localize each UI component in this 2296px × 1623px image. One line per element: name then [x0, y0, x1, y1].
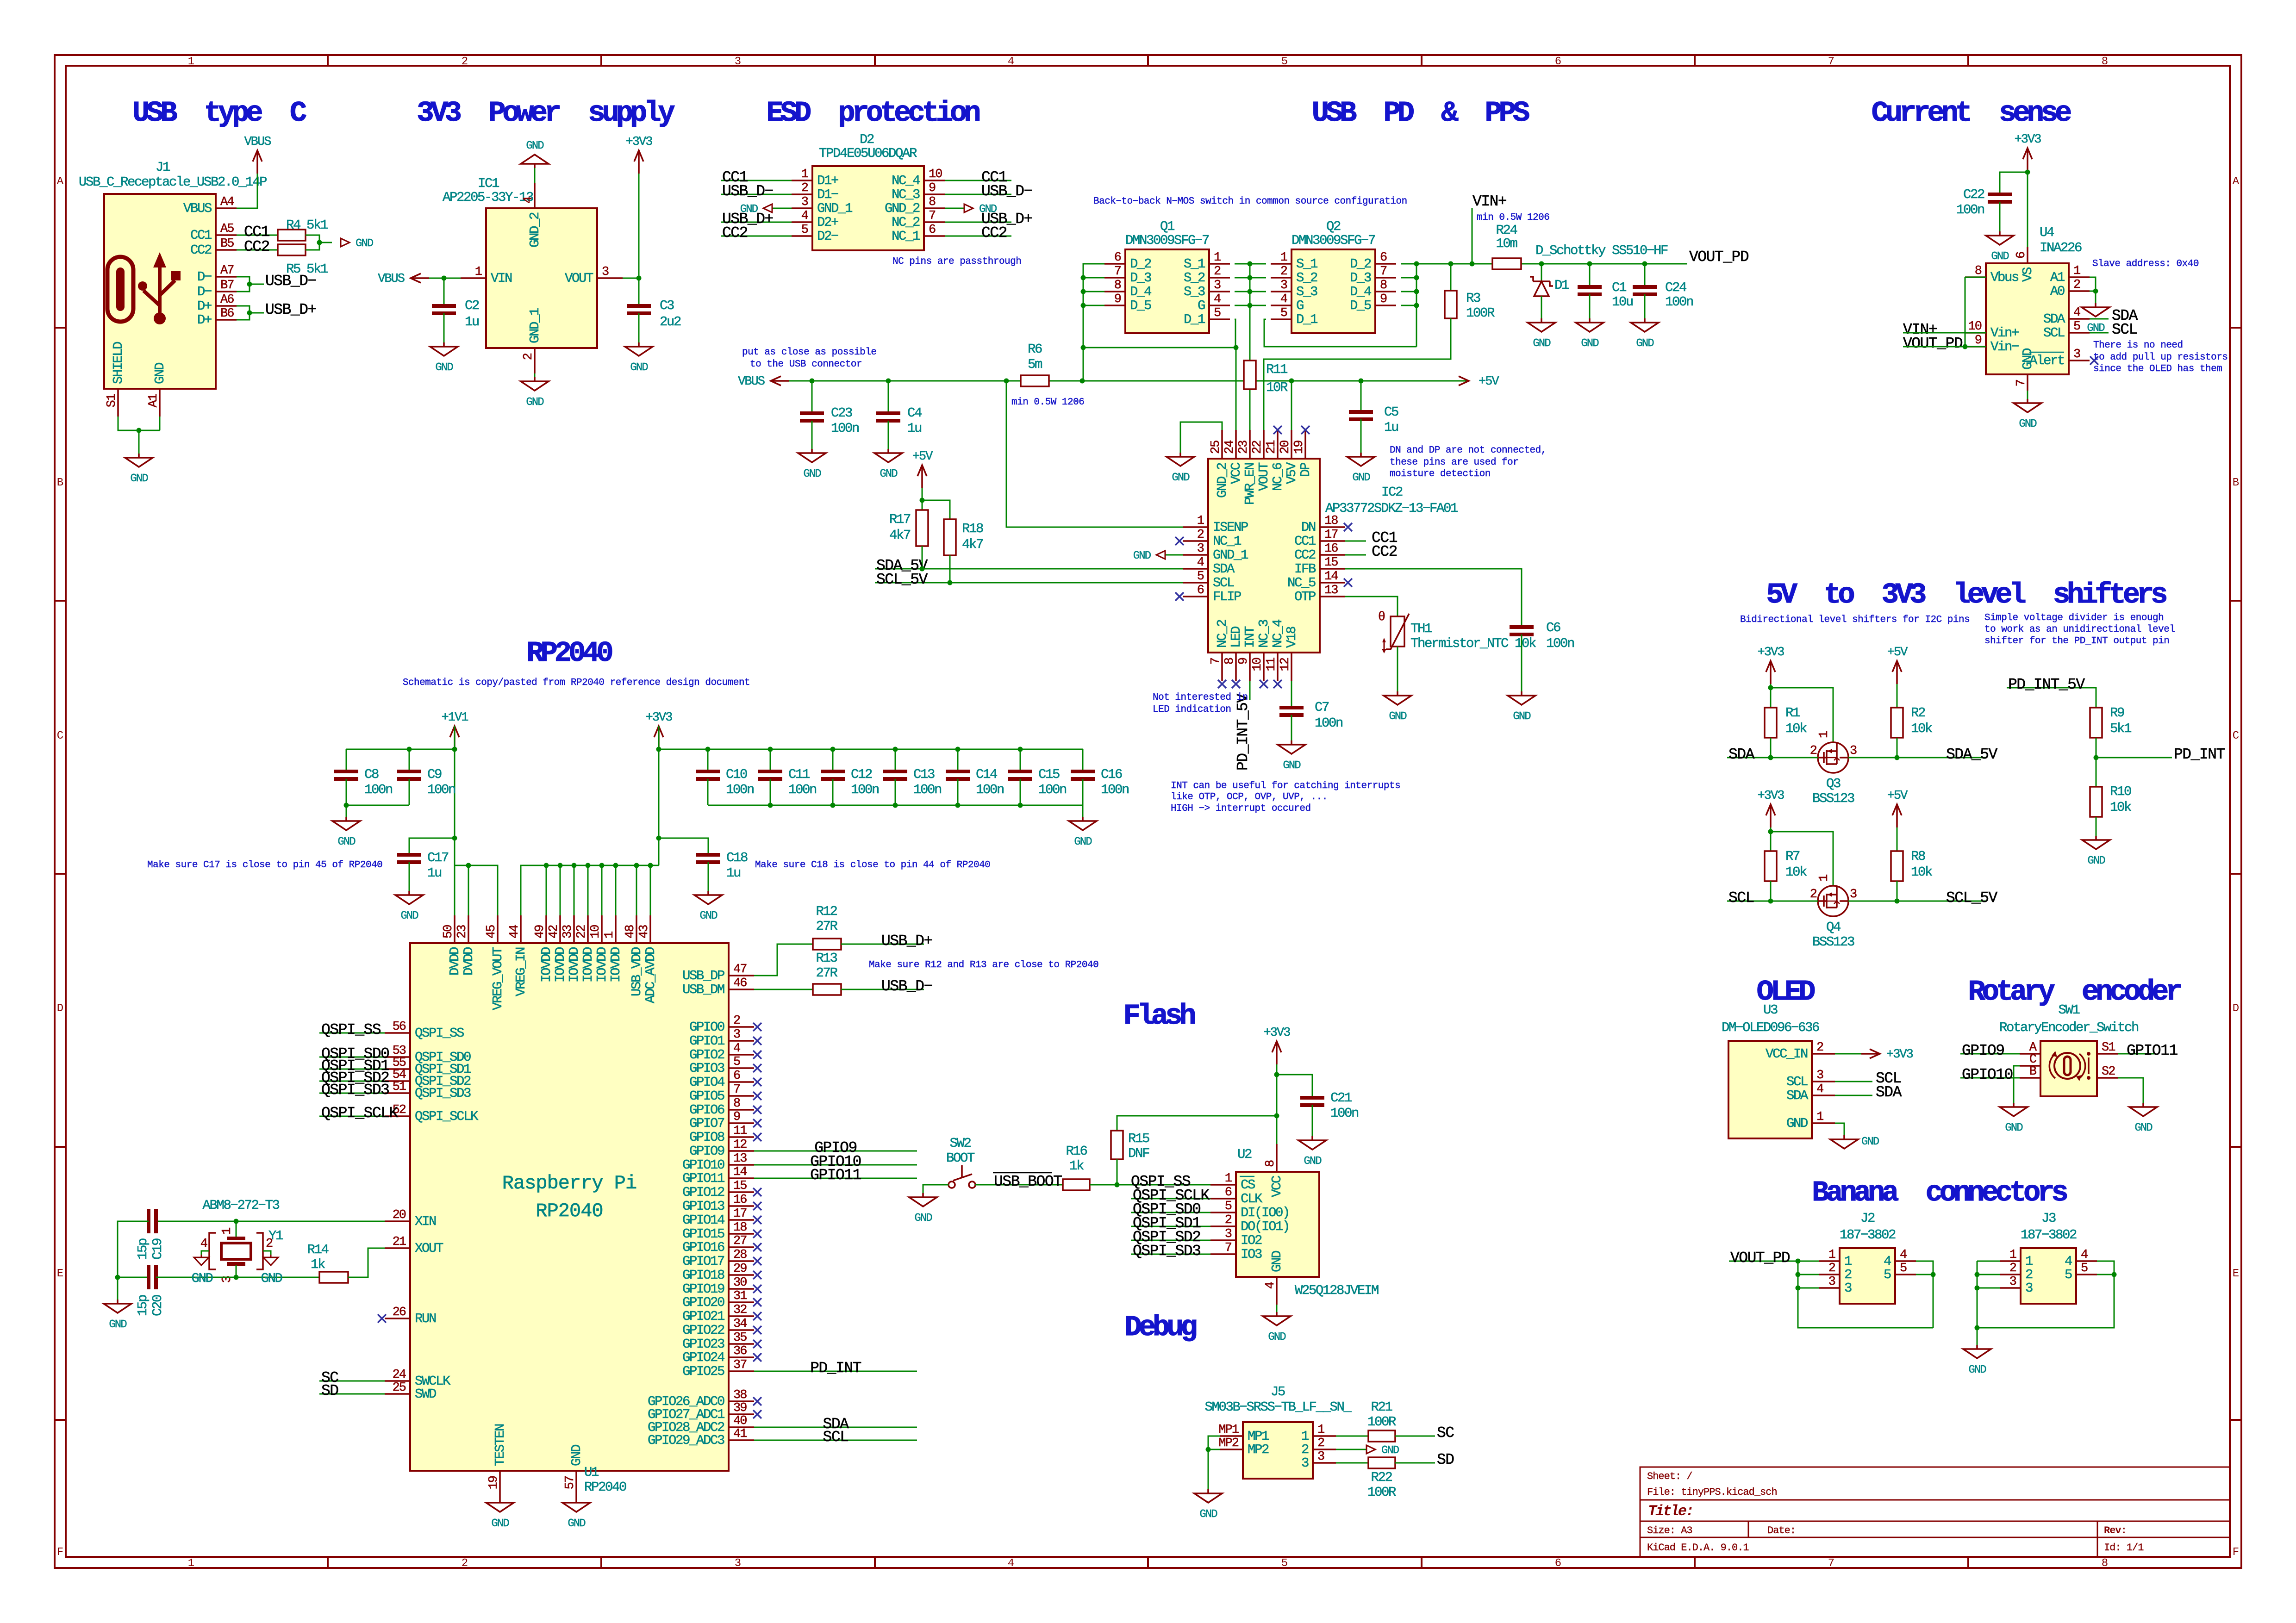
pin 6 NC_1: [892, 223, 945, 244]
svg-text:S1: S1: [2102, 1041, 2115, 1055]
resistor R7 10k: [1765, 851, 1777, 881]
svg-text:100n: 100n: [427, 782, 455, 797]
svg-text:C16: C16: [1101, 767, 1122, 782]
svg-text:GND: GND: [1861, 1136, 1879, 1148]
svg-text:GND: GND: [1533, 337, 1551, 350]
svg-text:6: 6: [1197, 584, 1204, 597]
svg-text:C17: C17: [427, 850, 449, 865]
wire GPIO11: [754, 1178, 917, 1179]
svg-text:CS: CS: [1241, 1177, 1255, 1193]
svg-text:GND: GND: [1199, 1508, 1217, 1521]
pin 19 TESTEN: [487, 1424, 508, 1499]
svg-text:R9: R9: [2110, 705, 2124, 721]
no-connect: [753, 1078, 761, 1086]
pin 6 D_2: [1350, 251, 1396, 272]
pin S1: [2097, 1041, 2118, 1055]
junction: [317, 240, 322, 245]
ground: [1194, 1489, 1222, 1521]
no-connect: [753, 1397, 761, 1405]
junction: [1081, 275, 1086, 280]
power flag +5V right: [1459, 375, 1499, 389]
pin 1 A1: [2050, 264, 2090, 285]
no-connect: [753, 1326, 761, 1334]
svg-text:2: 2: [2073, 278, 2080, 292]
wire SW2 to gnd: [923, 1185, 948, 1193]
svg-text:4: 4: [1264, 1282, 1278, 1289]
wire CC2 right: [945, 236, 1011, 237]
wire vdd drop: [636, 865, 637, 915]
svg-text:10k: 10k: [1911, 721, 1932, 736]
wire vdd drop: [601, 865, 603, 915]
svg-text:GND: GND: [569, 1445, 584, 1466]
wire USB_D- right: [945, 194, 1011, 195]
capacitor C18 1u: [659, 838, 708, 855]
svg-text:RUN: RUN: [415, 1311, 436, 1326]
svg-text:θ: θ: [1378, 610, 1385, 624]
svg-text:15p: 15p: [135, 1238, 150, 1260]
svg-text:GPIO9: GPIO9: [689, 1144, 724, 1159]
junction: [1539, 261, 1544, 267]
junction: [2112, 1272, 2117, 1277]
wire +5V to R17 R18: [922, 488, 923, 510]
svg-text:Title:: Title:: [1648, 1503, 1693, 1520]
wire +3V3 to R1 and gate: [1770, 684, 1772, 708]
svg-text:A1: A1: [2050, 270, 2065, 285]
wire J3 right bus: [1977, 1261, 2114, 1328]
pin A5 CC1: [190, 222, 237, 243]
svg-text:Y1: Y1: [268, 1228, 283, 1244]
pin 46 USB_DM: [682, 976, 754, 997]
ground: [1167, 453, 1194, 484]
svg-text:B: B: [2233, 477, 2239, 489]
wire VCC drop: [1276, 1116, 1278, 1144]
pin 43 ADC_AVDD: [637, 915, 658, 1003]
svg-text:38: 38: [733, 1388, 747, 1402]
svg-text:GND: GND: [400, 910, 418, 922]
no-connect: [753, 1133, 761, 1141]
svg-text:C13: C13: [913, 767, 935, 782]
pin 4 D2+: [792, 209, 838, 230]
pin 10 Vin+: [1965, 320, 2019, 341]
svg-text:D2−: D2−: [817, 229, 838, 244]
wire USB_D-: [841, 989, 924, 990]
svg-text:D_3: D_3: [1130, 270, 1151, 286]
svg-text:D_2: D_2: [1130, 256, 1151, 272]
svg-text:C14: C14: [976, 767, 997, 782]
current monitor U4 INA226: [1986, 263, 2069, 374]
svg-text:CC2: CC2: [722, 224, 748, 242]
svg-text:100n: 100n: [1330, 1106, 1358, 1121]
svg-text:3: 3: [1280, 279, 1287, 292]
power flag VBUS: [738, 375, 789, 389]
svg-text:to the USB connector: to the USB connector: [750, 359, 862, 370]
capacitor C23 100n: [811, 381, 813, 413]
svg-text:26: 26: [393, 1306, 406, 1319]
ground: [125, 454, 153, 485]
svg-text:1: 1: [1197, 514, 1204, 528]
pin A6 D+: [197, 293, 237, 314]
junction: [234, 1275, 239, 1280]
junction: [407, 747, 412, 752]
resistor R4 5k1: [278, 230, 306, 241]
svg-text:5: 5: [1280, 306, 1287, 320]
svg-text:GND: GND: [261, 1271, 282, 1286]
svg-text:GND_2: GND_2: [527, 212, 543, 248]
svg-text:TESTEN: TESTEN: [493, 1424, 508, 1466]
svg-text:8: 8: [1114, 279, 1121, 292]
svg-text:10: 10: [1968, 320, 1982, 334]
pin A: [2020, 1041, 2040, 1055]
wire SCL: [1835, 1081, 1872, 1082]
pin 15 IFB: [1294, 556, 1345, 577]
svg-text:GND: GND: [1172, 472, 1190, 484]
svg-text:100n: 100n: [1665, 294, 1693, 310]
svg-text:SD: SD: [1437, 1451, 1454, 1468]
ground: [1347, 453, 1375, 484]
svg-text:GPIO9: GPIO9: [1962, 1042, 2004, 1059]
pin 4 GND: [1264, 1251, 1285, 1305]
no-connect: [753, 1312, 761, 1320]
svg-text:PWR_EN: PWR_EN: [1242, 463, 1258, 505]
svg-text:2: 2: [1225, 1213, 1232, 1227]
connector J2 187-3802: [1840, 1248, 1895, 1304]
svg-text:VOUT: VOUT: [1256, 462, 1272, 491]
svg-text:D_1: D_1: [1296, 312, 1317, 327]
svg-text:D_4: D_4: [1130, 284, 1151, 299]
junction: [247, 311, 252, 316]
capacitor C2 1u: [443, 278, 445, 306]
pin A1 GND: [147, 363, 168, 417]
svg-text:1k: 1k: [311, 1257, 325, 1272]
svg-text:A6: A6: [220, 293, 234, 307]
pin 7 GND: [2015, 348, 2035, 391]
pin 40 GPIO28_ADC2: [648, 1414, 754, 1435]
svg-text:5: 5: [1900, 1262, 1907, 1275]
pin 8 D_4: [1104, 279, 1151, 299]
svg-text:GND: GND: [130, 473, 148, 485]
junction: [830, 803, 836, 808]
junction: [1289, 379, 1294, 384]
svg-text:USB type C: USB type C: [132, 97, 306, 130]
wire USB_BOOT: [975, 1184, 1063, 1186]
svg-text:3: 3: [735, 1557, 741, 1570]
wire gnd bus left: [346, 805, 409, 817]
svg-text:IOVDD: IOVDD: [594, 947, 610, 983]
svg-text:21: 21: [393, 1235, 406, 1249]
pin 41 GPIO29_ADC3: [648, 1427, 754, 1448]
svg-text:Bidirectional level shifters f: Bidirectional level shifters for I2C pin…: [1740, 615, 1970, 625]
pin 1 GND: [1786, 1110, 1835, 1131]
junction: [2093, 289, 2098, 294]
wire VOUT to +3V3: [623, 174, 639, 278]
pin 7 D_3: [1350, 265, 1396, 286]
svg-text:C3: C3: [660, 298, 674, 313]
pin 8 GND_2: [885, 195, 945, 216]
pin 6 D_2: [1104, 251, 1151, 272]
svg-text:IOVDD: IOVDD: [553, 947, 568, 983]
svg-text:shifter for the PD_INT output: shifter for the PD_INT output pin: [1984, 636, 2169, 647]
svg-text:C7: C7: [1315, 700, 1329, 715]
thermistor TH1 NTC 10k: [1345, 597, 1398, 616]
pin 42 IOVDD: [547, 915, 568, 983]
svg-text:DP: DP: [1298, 463, 1313, 477]
wire USB_D+ right: [945, 222, 1011, 223]
wire Q2 D_1: [1264, 319, 1416, 347]
svg-text:DM−OLED096−636: DM−OLED096−636: [1722, 1020, 1819, 1035]
svg-text:1: 1: [475, 265, 482, 279]
wire USB_DP to R12: [754, 944, 813, 976]
svg-text:GND: GND: [1636, 337, 1654, 350]
svg-text:B7: B7: [220, 279, 234, 292]
svg-text:GPIO13: GPIO13: [682, 1199, 724, 1214]
svg-text:GND: GND: [1304, 1155, 1322, 1168]
svg-text:C4: C4: [907, 405, 922, 421]
svg-text:moisture detection: moisture detection: [1390, 469, 1491, 479]
junction: [613, 863, 618, 868]
power flag GND top: [534, 168, 536, 183]
svg-text:R8: R8: [1911, 849, 1925, 864]
junction: [1796, 1259, 1801, 1264]
svg-text:1: 1: [1816, 1110, 1823, 1124]
no-connect: [753, 1353, 761, 1362]
svg-text:3V3 Power supply: 3V3 Power supply: [417, 97, 675, 130]
svg-text:VS: VS: [2020, 267, 2035, 282]
svg-text:GPIO14: GPIO14: [682, 1213, 724, 1228]
wire divider mid: [2096, 738, 2097, 787]
junction: [442, 276, 447, 281]
wire +3V3 riser: [1276, 1064, 1278, 1116]
svg-text:BSS123: BSS123: [1812, 791, 1854, 806]
svg-text:C5: C5: [1384, 404, 1398, 420]
wire S2 to gnd: [2118, 1078, 2143, 1103]
wire +3V3 to VS: [2027, 171, 2028, 247]
no-connect: [1344, 578, 1352, 587]
svg-text:GND: GND: [880, 468, 898, 480]
wire GPIO10: [754, 1164, 917, 1166]
pin 18 DN: [1301, 514, 1345, 535]
svg-text:B: B: [2029, 1065, 2037, 1079]
no-connect: [753, 1285, 761, 1293]
pin 5 SCL: [2043, 320, 2090, 341]
pin 16 GPIO13: [682, 1193, 754, 1214]
svg-text:Id: 1/1: Id: 1/1: [2104, 1542, 2144, 1554]
pin 27 GPIO16: [682, 1234, 754, 1255]
svg-text:A: A: [2233, 175, 2240, 188]
wire +5V to R8: [1897, 827, 1898, 851]
svg-text:9: 9: [1380, 292, 1387, 306]
wire to ground: [117, 1277, 119, 1300]
svg-text:min 0.5W 1206: min 0.5W 1206: [1011, 397, 1084, 408]
svg-text:USB_VDD: USB_VDD: [629, 947, 644, 996]
svg-text:GND_1: GND_1: [1213, 547, 1248, 563]
svg-text:C22: C22: [1963, 187, 1984, 202]
svg-text:QSPI_SCLK: QSPI_SCLK: [415, 1109, 479, 1124]
svg-text:USB_D−: USB_D−: [881, 978, 932, 995]
svg-text:QSPI_SD3: QSPI_SD3: [321, 1082, 389, 1099]
svg-text:D1−: D1−: [817, 187, 838, 202]
svg-text:DO(IO1): DO(IO1): [1241, 1219, 1289, 1234]
svg-text:187−3802: 187−3802: [1840, 1227, 1896, 1243]
junction: [1080, 379, 1085, 384]
svg-text:GND: GND: [491, 1517, 509, 1530]
wire SD: [1395, 1462, 1435, 1464]
svg-text:D2: D2: [860, 132, 874, 147]
svg-text:PD_INT: PD_INT: [810, 1360, 861, 1377]
svg-text:ISENP: ISENP: [1213, 520, 1248, 535]
diode D1 schottky: [1541, 264, 1542, 281]
svg-text:5: 5: [1214, 306, 1221, 320]
transistor Q3 BSS123: [1818, 742, 1848, 773]
pin 32 GPIO21: [682, 1303, 754, 1324]
svg-text:GND: GND: [526, 396, 544, 409]
pin 23 PWR_EN: [1237, 430, 1258, 505]
svg-text:8: 8: [1223, 658, 1237, 665]
svg-text:5: 5: [1884, 1267, 1891, 1282]
svg-text:A1: A1: [147, 394, 161, 407]
svg-text:4: 4: [1900, 1248, 1907, 1262]
svg-text:3: 3: [1197, 542, 1204, 556]
pin 2 NC_1: [1183, 528, 1241, 549]
capacitor C9 100n: [409, 749, 410, 771]
no-connect: [753, 1243, 761, 1251]
svg-text:GND: GND: [1968, 1364, 1986, 1376]
wire gate to R11: [1249, 305, 1251, 361]
display U3 DM-OLED096-636: [1728, 1041, 1812, 1138]
wire J2 pins 2 3: [1798, 1274, 1819, 1275]
svg-text:VOUT_PD: VOUT_PD: [1903, 335, 1963, 352]
svg-text:3: 3: [1301, 1455, 1309, 1471]
pin 9 D_5: [1350, 292, 1396, 313]
svg-text:S_3: S_3: [1184, 284, 1205, 299]
capacitor C5 1u: [1360, 381, 1362, 412]
junction: [893, 747, 898, 752]
power flag +5V lower: [1887, 789, 1908, 827]
pin 22 IOVDD: [575, 915, 596, 983]
svg-text:100R: 100R: [1367, 1485, 1396, 1500]
svg-text:GPIO7: GPIO7: [689, 1116, 724, 1131]
svg-text:8: 8: [2102, 1557, 2108, 1570]
pin 7 NC_2: [1209, 620, 1230, 681]
wire J3 left bus: [1977, 1261, 2000, 1262]
wire SCL: [1727, 901, 1818, 902]
ground: [909, 1193, 937, 1225]
junction: [948, 580, 953, 585]
wire GPIO9: [1960, 1053, 2020, 1055]
svg-text:GND: GND: [2134, 1122, 2152, 1134]
power flag +3V3: [2015, 133, 2041, 171]
pin 33 IOVDD: [561, 915, 582, 983]
svg-text:R12: R12: [816, 904, 837, 919]
wire CC2: [237, 249, 278, 251]
pin 12 GPIO9: [689, 1138, 754, 1159]
svg-text:1u: 1u: [1384, 420, 1398, 435]
pin 56 QSPI_SS: [385, 1020, 464, 1041]
wire QSPI_SD2: [1131, 1240, 1210, 1241]
wire common source bus: [1235, 263, 1266, 265]
wire QSPI_SD0: [319, 1057, 385, 1058]
svg-text:USB_C_Receptacle_USB2.0_14P: USB_C_Receptacle_USB2.0_14P: [79, 174, 267, 190]
regulator IC1 AP2205-33Y-13: [486, 208, 597, 348]
ground: [395, 891, 423, 922]
svg-text:F: F: [2233, 1546, 2239, 1559]
wire PD_INT_5V: [2007, 688, 2096, 708]
svg-text:45: 45: [485, 925, 499, 939]
pin 4: [2065, 1248, 2097, 1269]
svg-text:R7: R7: [1785, 849, 1800, 864]
svg-text:GND: GND: [1786, 1116, 1808, 1131]
ground: [1298, 1136, 1326, 1168]
ground: [104, 1300, 131, 1331]
svg-text:E: E: [2233, 1268, 2239, 1280]
svg-text:U4: U4: [2040, 225, 2054, 240]
junction: [544, 863, 549, 868]
pin 1 ISENP: [1183, 514, 1248, 535]
junction: [1963, 344, 1968, 349]
pin 26 RUN: [385, 1306, 436, 1326]
ground: [1631, 318, 1659, 350]
junction: [1414, 303, 1419, 308]
wire U2 gnd: [1276, 1305, 1278, 1312]
svg-text:GPIO3: GPIO3: [689, 1061, 724, 1076]
svg-text:Vin−: Vin−: [1990, 339, 2019, 354]
svg-text:6: 6: [1555, 1557, 1561, 1570]
svg-text:9: 9: [1975, 334, 1982, 348]
svg-text:GPIO5: GPIO5: [689, 1088, 724, 1104]
svg-text:11: 11: [1265, 658, 1279, 671]
svg-text:9: 9: [1114, 292, 1121, 306]
svg-text:GND: GND: [1269, 1251, 1285, 1272]
capacitor C16 100n: [1082, 749, 1084, 771]
wire VBUS to +5V rail: [789, 380, 1021, 382]
resistor R24 10m: [1492, 258, 1521, 269]
pin 4 G: [1271, 292, 1304, 313]
svg-text:1: 1: [1214, 251, 1221, 265]
pin 3 IO2: [1210, 1227, 1262, 1248]
svg-text:CC2: CC2: [981, 224, 1007, 242]
pin B6 D+: [197, 307, 237, 328]
pin 12 V18: [1279, 627, 1299, 681]
svg-text:+5V: +5V: [1479, 375, 1499, 389]
pin 2 GPIO0: [689, 1014, 754, 1035]
junction: [636, 276, 642, 281]
svg-text:Schematic is copy/pasted from: Schematic is copy/pasted from RP2040 ref…: [403, 678, 750, 688]
svg-text:1: 1: [2073, 264, 2080, 278]
svg-text:1: 1: [801, 168, 808, 181]
svg-text:22: 22: [575, 925, 589, 939]
junction: [1895, 755, 1900, 760]
svg-text:USB_DM: USB_DM: [682, 982, 724, 997]
svg-text:VREG_VOUT: VREG_VOUT: [490, 947, 505, 1010]
wire C19 to C20: [118, 1221, 149, 1277]
svg-text:LED indication: LED indication: [1153, 704, 1231, 715]
junction: [1206, 1447, 1211, 1452]
svg-text:SM03B−SRSS−TB_LF__SN_: SM03B−SRSS−TB_LF__SN_: [1204, 1399, 1352, 1415]
svg-text:31: 31: [733, 1289, 747, 1303]
svg-text:GND: GND: [1268, 1331, 1286, 1343]
wire R4 R5 to GND: [306, 235, 319, 250]
ground: [2000, 1103, 2028, 1134]
svg-text:10k: 10k: [1911, 864, 1932, 880]
svg-text:R22: R22: [1371, 1470, 1392, 1485]
junction: [586, 863, 591, 868]
resistor R9 5k1: [2090, 708, 2102, 738]
no-connect: [753, 1340, 761, 1348]
junction: [648, 863, 653, 868]
flash U2 W25Q128JVEIM: [1236, 1172, 1319, 1277]
svg-text:V5V: V5V: [1284, 462, 1299, 484]
resistor R12 27R: [813, 939, 841, 950]
capacitor C8 100n: [346, 749, 347, 771]
